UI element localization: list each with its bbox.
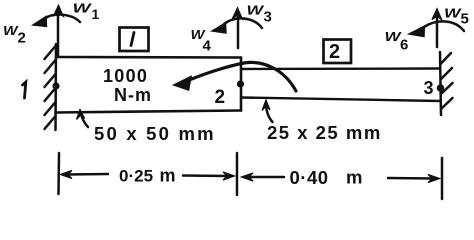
svg-text:1000: 1000 <box>103 66 148 86</box>
dimension tick right <box>441 158 444 199</box>
dimension tick middle <box>236 153 239 195</box>
torque arc arrowhead <box>174 77 191 91</box>
up arrow at node 3 <box>432 9 442 47</box>
node 1 dot <box>52 82 59 89</box>
box label 2 <box>324 40 352 64</box>
svg-text:25 x 25 mm: 25 x 25 mm <box>267 122 382 143</box>
dim arrow 0.40 left <box>247 176 284 179</box>
leader arrow 25x25 <box>266 105 273 123</box>
up arrow at node 1 <box>54 6 64 58</box>
svg-text:W: W <box>73 1 94 16</box>
svg-text:2: 2 <box>329 41 340 63</box>
wall left (support 1) <box>45 44 57 130</box>
svg-text:3: 3 <box>264 9 272 26</box>
up arrow at node 2 <box>233 8 243 48</box>
svg-text:5: 5 <box>461 11 469 28</box>
svg-text:0·40: 0·40 <box>290 167 329 188</box>
box label 1 <box>120 28 149 52</box>
svg-text:m: m <box>160 166 176 186</box>
curved arrow W2 at node 1 <box>33 15 80 27</box>
bar segment 2 outline (25x25) <box>241 69 440 102</box>
svg-text:W: W <box>247 3 266 18</box>
node 3 dot <box>437 84 445 92</box>
svg-text:6: 6 <box>400 37 408 54</box>
svg-text:N-m: N-m <box>114 85 152 105</box>
svg-text:4: 4 <box>203 38 212 55</box>
svg-text:1: 1 <box>92 6 100 22</box>
leader arrow 50x50 <box>81 113 88 127</box>
svg-text:2: 2 <box>18 30 26 47</box>
svg-text:50 x 50 mm: 50 x 50 mm <box>94 123 216 144</box>
svg-text:0·25: 0·25 <box>119 167 153 186</box>
dim arrow 0.25 left <box>66 173 108 176</box>
dim arrow 0.40 right <box>388 177 434 180</box>
svg-text:2: 2 <box>215 87 226 108</box>
wall right (support 3) <box>440 52 453 115</box>
node label 1 (drawn stroke) <box>23 82 26 98</box>
curved arrow W4 at node 2 <box>212 18 262 33</box>
box digit 1 (drawn stroke) <box>131 33 134 46</box>
dimension tick left <box>57 153 60 194</box>
curved arrow W6 at node 3 <box>409 21 464 36</box>
bar segment 1 outline (50x50) <box>56 57 242 113</box>
svg-text:3: 3 <box>424 78 434 98</box>
dim arrow 0.25 right <box>183 174 229 177</box>
torque arc 1000 N-m <box>187 62 296 91</box>
node 2 dot <box>237 80 244 87</box>
svg-text:m: m <box>346 167 362 188</box>
